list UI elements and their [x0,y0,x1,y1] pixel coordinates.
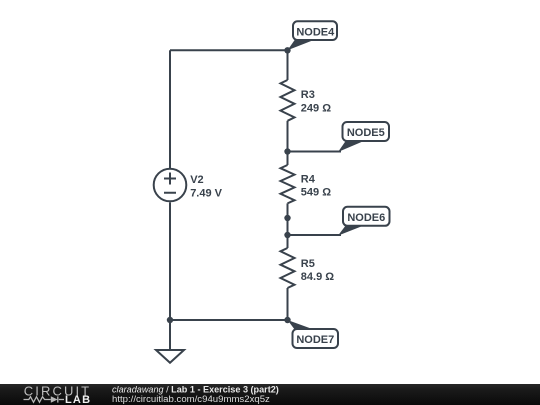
svg-text:NODE4: NODE4 [296,26,335,38]
svg-text:R5: R5 [301,258,315,270]
svg-text:LAB: LAB [65,394,91,405]
svg-text:http://circuitlab.com/c94u9mms: http://circuitlab.com/c94u9mms2xq5z [112,394,270,405]
svg-text:R4: R4 [301,174,316,186]
svg-text:V2: V2 [190,174,203,186]
svg-text:7.49 V: 7.49 V [190,187,222,199]
svg-text:NODE7: NODE7 [296,334,334,346]
svg-text:NODE5: NODE5 [347,127,385,139]
svg-text:249 Ω: 249 Ω [301,103,331,115]
svg-text:549 Ω: 549 Ω [301,187,331,199]
svg-text:84.9 Ω: 84.9 Ω [301,271,334,283]
svg-text:NODE6: NODE6 [347,212,385,224]
svg-text:R3: R3 [301,89,315,101]
